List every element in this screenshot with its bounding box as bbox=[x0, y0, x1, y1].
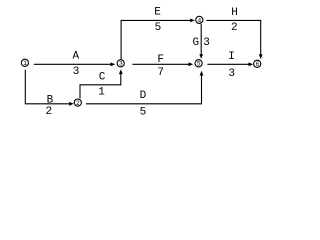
svg-text:4: 4 bbox=[198, 17, 202, 24]
node 6 bbox=[254, 60, 261, 68]
svg-text:D: D bbox=[140, 90, 147, 102]
svg-text:3: 3 bbox=[203, 37, 210, 49]
svg-text:6: 6 bbox=[255, 61, 259, 68]
wire activity B arrow (node 1 down then right to node 2) bbox=[25, 70, 74, 106]
svg-text:F: F bbox=[157, 54, 164, 66]
svg-text:3: 3 bbox=[119, 61, 123, 68]
svg-text:H: H bbox=[231, 7, 238, 19]
wire activity H arrow (node 4 right then down into node 6) bbox=[206, 20, 262, 59]
node 4 bbox=[196, 16, 203, 24]
wire activity G arrow (node 4 down to node 5) bbox=[199, 24, 203, 59]
svg-text:1: 1 bbox=[98, 87, 105, 99]
node 1 bbox=[21, 59, 28, 67]
node 3 bbox=[117, 60, 124, 68]
svg-text:5: 5 bbox=[155, 22, 162, 34]
node 5 bbox=[195, 60, 202, 68]
svg-text:3: 3 bbox=[73, 66, 80, 78]
svg-text:1: 1 bbox=[23, 60, 27, 67]
svg-text:7: 7 bbox=[157, 67, 164, 79]
wire activity E arrow (node 3 up then right to node 4) bbox=[121, 19, 195, 60]
svg-text:I: I bbox=[228, 51, 235, 63]
wire activity F arrow (node 3 to node 5) bbox=[132, 62, 193, 66]
svg-text:B: B bbox=[47, 94, 54, 106]
wire activity I arrow (node 5 to node 6) bbox=[207, 62, 253, 66]
svg-text:C: C bbox=[99, 71, 106, 83]
wire activity D arrow (node 2 right then up into node 5) bbox=[86, 71, 203, 104]
node 2 bbox=[74, 99, 81, 107]
svg-text:2: 2 bbox=[231, 22, 238, 34]
wire activity C arrow (node 2 up then right then up into node 3) bbox=[80, 69, 123, 98]
svg-text:G: G bbox=[192, 37, 199, 49]
svg-text:2: 2 bbox=[76, 100, 80, 107]
svg-text:E: E bbox=[154, 6, 161, 18]
svg-text:3: 3 bbox=[228, 68, 235, 80]
svg-text:2: 2 bbox=[45, 106, 52, 118]
svg-text:5: 5 bbox=[140, 106, 147, 118]
svg-text:A: A bbox=[72, 51, 79, 63]
wire activity A arrow (node 1 to node 3) bbox=[34, 62, 115, 66]
svg-text:5: 5 bbox=[197, 61, 201, 68]
